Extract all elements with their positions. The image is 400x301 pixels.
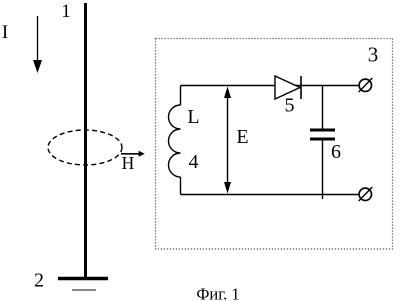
svg-text:1: 1 [61,1,71,22]
svg-text:6: 6 [331,141,341,163]
svg-text:H: H [122,153,135,173]
svg-text:E: E [236,126,248,148]
svg-text:5: 5 [285,95,295,117]
svg-text:L: L [187,106,199,128]
svg-text:I: I [2,22,8,43]
svg-text:3: 3 [368,43,379,67]
svg-text:Фиг. 1: Фиг. 1 [196,285,239,301]
svg-text:2: 2 [34,270,44,292]
svg-text:4: 4 [189,151,199,173]
